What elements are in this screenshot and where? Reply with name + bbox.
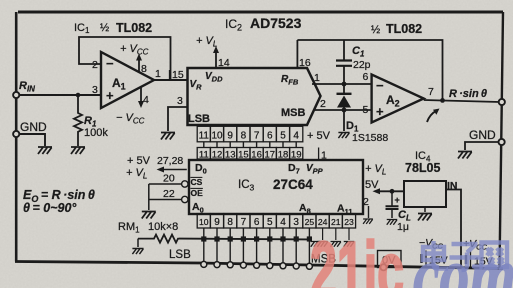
svg-text:+ 5V: + 5V: [127, 155, 151, 167]
DAC data pin boxes 11..4: [197, 126, 303, 142]
node C1/D1/pin1: [342, 82, 347, 87]
formula Eo = R sin theta: [23, 188, 95, 215]
capacitor C1 22p: [336, 40, 371, 84]
ground (DAC pin3): [161, 133, 175, 140]
resistor RM1 10kx8: [118, 221, 179, 243]
svg-text:10: 10: [199, 217, 209, 227]
svg-text:5: 5: [280, 130, 286, 141]
EPROM pin20 CS wire: [149, 173, 188, 188]
svg-text:10: 10: [211, 130, 223, 141]
svg-text:.com: .com: [398, 232, 513, 288]
svg-text:+ 5V: + 5V: [307, 130, 331, 142]
svg-text:100k: 100k: [84, 127, 108, 139]
wire A2 output to terminal: [424, 100, 500, 102]
svg-text:21ic: 21ic: [310, 226, 404, 288]
watermark CJK dian: [423, 241, 448, 269]
DAC pin2 wire to A2 non-inverting: [315, 98, 372, 110]
ground (right GND): [458, 152, 472, 159]
svg-text:5: 5: [267, 217, 273, 228]
wire 78L05 ground pin: [424, 207, 426, 212]
high address grounds A9-A11: [323, 228, 349, 240]
EPROM pin1 VPP tick: [319, 148, 327, 162]
svg-text:AD7523: AD7523: [250, 15, 302, 31]
ground (CS/OE): [142, 212, 156, 219]
RM1 bus wire: [179, 238, 309, 241]
watermark CJK zi: [450, 244, 480, 270]
svg-text:13: 13: [225, 149, 236, 160]
svg-text:19: 19: [291, 149, 302, 160]
svg-text:−: −: [376, 78, 384, 93]
svg-text:8: 8: [241, 130, 247, 141]
label 1/2 TL082 right: [371, 22, 422, 36]
ground (pin2): [363, 219, 373, 224]
EPROM pin22 OE wire: [149, 188, 188, 203]
ground (CL): [387, 220, 398, 225]
svg-text:3: 3: [177, 95, 183, 107]
node junction R1 tap: [76, 93, 81, 98]
border frame right: [500, 12, 504, 269]
op-amp A2: [372, 75, 424, 123]
ground (78L05): [418, 214, 432, 221]
DAC pin14 +VL arrow: [196, 35, 230, 69]
svg-text:4: 4: [293, 130, 299, 141]
A1 -Vcc pin 4: [116, 87, 149, 126]
address wires to terminals: [204, 228, 310, 265]
battery +Vcc 15V: [463, 238, 493, 268]
svg-text:6: 6: [363, 71, 369, 83]
svg-text:−: −: [106, 56, 114, 71]
svg-text:1S1588: 1S1588: [352, 132, 388, 144]
wire A1 out to DAC VR pin15: [154, 79, 188, 81]
wire GND right to ground: [465, 142, 499, 150]
wire RM1 to ground: [137, 239, 139, 247]
svg-text:θ = 0~90°: θ = 0~90°: [23, 201, 77, 215]
wire pins 20/22 to ground: [148, 184, 150, 210]
EPROM +VL / 5V labels right: [365, 163, 386, 191]
svg-text:78L05: 78L05: [405, 161, 440, 175]
EPROM +5V 27,28 labels: [127, 155, 183, 167]
svg-text:5V: 5V: [365, 179, 379, 191]
svg-text:MSB: MSB: [281, 107, 306, 119]
svg-text:8: 8: [227, 217, 233, 228]
svg-text:7: 7: [254, 130, 260, 141]
diode D1 1S1588: [337, 84, 389, 144]
svg-text:+: +: [376, 104, 384, 119]
EPROM data pin boxes 11..19: [197, 148, 303, 160]
svg-text:CS: CS: [191, 177, 203, 187]
svg-text:9: 9: [227, 130, 233, 141]
EPROM address pin boxes: [197, 214, 355, 228]
svg-text:3: 3: [92, 84, 98, 96]
node feedback/output: [440, 98, 445, 103]
terminal GND left: [13, 120, 47, 137]
svg-text:1: 1: [155, 68, 161, 80]
svg-text:9: 9: [214, 217, 220, 228]
regulator IC4 78L05: [404, 150, 458, 207]
svg-text:TL082: TL082: [386, 22, 422, 36]
svg-text:5: 5: [363, 104, 369, 116]
svg-text:½: ½: [100, 22, 109, 34]
DAC pin15 label: [170, 69, 184, 81]
svg-text:TL082: TL082: [116, 21, 152, 35]
bus junction dots: [201, 236, 312, 241]
svg-text:6: 6: [267, 130, 273, 141]
svg-text:+: +: [106, 88, 114, 103]
op-amp A1: [101, 52, 154, 108]
svg-text:14: 14: [218, 57, 230, 69]
svg-text:7: 7: [428, 86, 434, 98]
svg-text:7: 7: [241, 217, 247, 228]
label IC1 1/2 TL082: [74, 21, 152, 35]
svg-text:8: 8: [141, 63, 147, 75]
ground (RM1): [132, 249, 143, 255]
svg-text:4: 4: [143, 94, 149, 106]
svg-text:15: 15: [172, 69, 184, 81]
svg-text:18: 18: [278, 149, 289, 160]
svg-text:11: 11: [199, 130, 210, 141]
wire GND to ground: [19, 134, 45, 146]
svg-text:2: 2: [320, 98, 326, 110]
ground (R1): [71, 147, 85, 154]
node D1/pin2: [342, 108, 347, 113]
input terminals LSB..MSB: [201, 261, 313, 269]
battery -Vcc 15V: [419, 237, 448, 267]
svg-text:+: +: [395, 195, 400, 205]
svg-text:4: 4: [280, 217, 286, 228]
svg-text:17: 17: [265, 149, 276, 160]
svg-text:16: 16: [251, 149, 262, 160]
border frame left: [15, 12, 18, 262]
terminal R_IN: [13, 80, 35, 98]
A1 +Vcc pin 8: [120, 43, 149, 75]
svg-text:27,28: 27,28: [157, 155, 183, 167]
DAC pin3 to ground: [168, 95, 188, 131]
svg-text:R ·sin θ: R ·sin θ: [449, 88, 487, 100]
wire 78L05 IN to +15V: [446, 190, 461, 269]
label IC2 AD7523: [225, 15, 302, 33]
wire stubs DAC to EPROM data: [204, 142, 296, 148]
feedback rail wire (RFB / C1 / A2 out): [297, 40, 442, 100]
capacitor CL 1u: [386, 191, 411, 233]
DAC U2 AD7523 body: [188, 68, 321, 125]
ground (left GND): [38, 147, 52, 154]
EPROM U3 27C64 body: [189, 160, 363, 216]
border frame top: [18, 11, 503, 14]
border frame bottom (0V bus): [15, 262, 503, 269]
resistor R1 100k: [74, 95, 108, 146]
svg-text:GND: GND: [20, 120, 47, 134]
svg-text:27C64: 27C64: [273, 177, 313, 192]
0V tap terminal: [378, 251, 402, 271]
svg-text:6: 6: [254, 217, 260, 228]
DAC pin16 lead up: [297, 40, 310, 69]
svg-text:11: 11: [199, 149, 209, 160]
svg-text:10k×8: 10k×8: [148, 221, 178, 233]
wire R_IN to A1 pin3: [19, 94, 101, 96]
svg-text:15: 15: [238, 149, 249, 160]
A1 feedback wire pin1 to pin2: [79, 37, 171, 80]
terminal R sin theta: [499, 99, 505, 105]
adjust arrow: [427, 111, 436, 122]
svg-text:LSB: LSB: [169, 249, 191, 261]
EPROM Vcc arrow +VL: [126, 167, 187, 181]
svg-text:12: 12: [212, 149, 223, 160]
svg-text:2: 2: [92, 59, 98, 71]
svg-text:GND: GND: [469, 128, 496, 142]
svg-text:22: 22: [163, 188, 175, 200]
svg-text:3: 3: [293, 217, 299, 228]
svg-text:16: 16: [299, 57, 311, 69]
svg-text:20: 20: [163, 173, 175, 185]
terminal GND right: [469, 128, 505, 145]
svg-text:LSB: LSB: [188, 113, 210, 125]
svg-text:22p: 22p: [353, 59, 371, 71]
svg-text:OE: OE: [191, 188, 204, 198]
DAC pin1 wire to A2 inverting: [312, 72, 372, 84]
EPROM pin2 A12 to ground: [363, 196, 369, 218]
svg-text:1: 1: [314, 72, 320, 84]
wire 78L05 output +VL arrow: [373, 188, 405, 194]
node CL tap: [390, 189, 395, 194]
svg-text:½: ½: [371, 24, 380, 36]
watermark CJK wang: [482, 243, 508, 268]
ground (D1): [338, 133, 349, 139]
